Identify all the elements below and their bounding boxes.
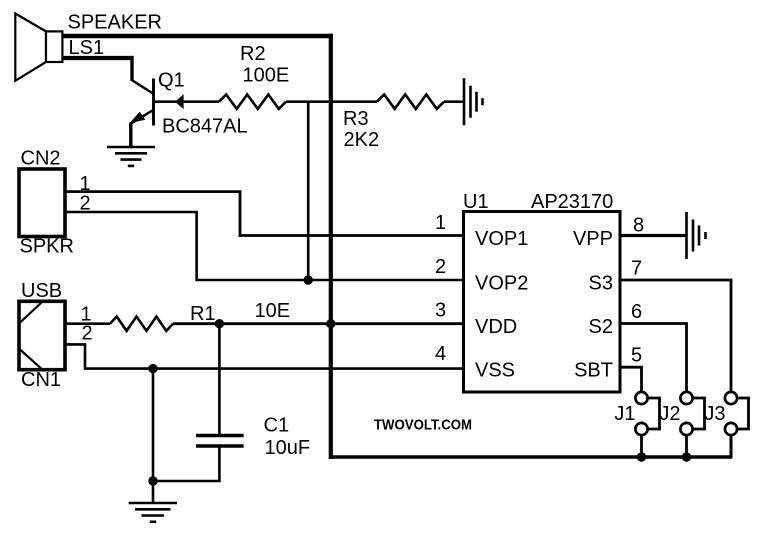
svg-text:2: 2: [82, 322, 93, 344]
svg-text:6: 6: [631, 301, 642, 323]
connector CN2: [19, 169, 65, 237]
svg-text:S2: S2: [589, 316, 613, 338]
svg-text:Q1: Q1: [158, 70, 185, 92]
svg-text:5: 5: [631, 345, 642, 367]
svg-text:VOP1: VOP1: [475, 228, 528, 250]
wire CN2 pin2 to U1 VOP2: [65, 212, 464, 280]
wire LS1 to Q1 collector: [62, 56, 154, 94]
speaker LS1: [15, 14, 62, 81]
ground at R3 (rotated): [464, 78, 483, 125]
wire S3 to J3: [619, 280, 731, 392]
wire VSS branch to ground: [148, 369, 157, 503]
wire node base to VOP2: [304, 102, 313, 285]
wire speaker plus to bus: [62, 34, 333, 459]
jumper J3: [725, 392, 749, 457]
svg-text:VPP: VPP: [573, 228, 613, 250]
svg-text:USB: USB: [21, 280, 62, 302]
op-amp U1 box: [464, 212, 621, 393]
svg-text:R1: R1: [190, 303, 216, 325]
svg-text:TWOVOLT.COM: TWOVOLT.COM: [374, 417, 472, 434]
svg-text:J2: J2: [659, 403, 680, 425]
svg-text:2K2: 2K2: [344, 129, 380, 151]
jumper J2: [680, 392, 704, 457]
svg-text:10uF: 10uF: [265, 437, 311, 459]
wire R2 to R3: [286, 100, 377, 103]
svg-text:CN1: CN1: [21, 369, 61, 391]
svg-text:10E: 10E: [255, 300, 291, 322]
svg-text:AP23170: AP23170: [531, 191, 613, 213]
svg-text:SPEAKER: SPEAKER: [68, 12, 162, 34]
wire VSS net CN1 pin2 to U1 pin4: [65, 344, 464, 373]
wire bottom bus: [329, 434, 731, 462]
svg-text:VSS: VSS: [475, 360, 515, 382]
svg-text:J1: J1: [614, 403, 635, 425]
svg-text:S3: S3: [589, 273, 613, 295]
ground at Q1 emitter: [107, 147, 155, 166]
svg-text:BC847AL: BC847AL: [162, 116, 248, 138]
jumper J1: [635, 392, 659, 457]
svg-text:J3: J3: [704, 403, 725, 425]
svg-text:2: 2: [435, 256, 446, 278]
svg-text:8: 8: [633, 215, 644, 237]
resistor R2: [219, 95, 286, 109]
wire S2 to J2: [619, 324, 687, 392]
svg-text:3: 3: [435, 300, 446, 322]
svg-text:U1: U1: [463, 191, 489, 213]
ground at C1: [129, 503, 177, 522]
svg-text:4: 4: [435, 343, 446, 365]
wire SBT to J1: [619, 367, 642, 392]
svg-text:VDD: VDD: [475, 316, 517, 338]
svg-text:R3: R3: [343, 108, 369, 130]
wire R3 to ground: [444, 100, 464, 103]
svg-text:100E: 100E: [243, 64, 290, 86]
resistor R1: [110, 317, 173, 331]
svg-text:VOP2: VOP2: [475, 273, 528, 295]
svg-text:R2: R2: [240, 43, 266, 65]
svg-text:CN2: CN2: [21, 147, 61, 169]
wire Q1 base with arrow: [154, 94, 220, 109]
svg-text:SBT: SBT: [574, 360, 613, 382]
wire CN2 pin1 to U1 VOP1: [65, 192, 464, 236]
wire CN1 pin1 to R1: [65, 322, 110, 325]
transistor Q1: [130, 79, 154, 149]
ground at VPP (rotated): [687, 212, 706, 259]
wire VPP to ground: [619, 234, 687, 237]
svg-text:SPKR: SPKR: [20, 235, 74, 257]
svg-text:1: 1: [435, 212, 446, 234]
svg-text:LS1: LS1: [69, 37, 105, 59]
svg-text:7: 7: [631, 258, 642, 280]
connector CN1 USB: [19, 301, 65, 369]
resistor R3: [377, 95, 444, 109]
wire VDD net R1 to U1 pin3: [173, 319, 464, 328]
svg-text:C1: C1: [264, 415, 290, 437]
capacitor C1: [153, 324, 244, 481]
